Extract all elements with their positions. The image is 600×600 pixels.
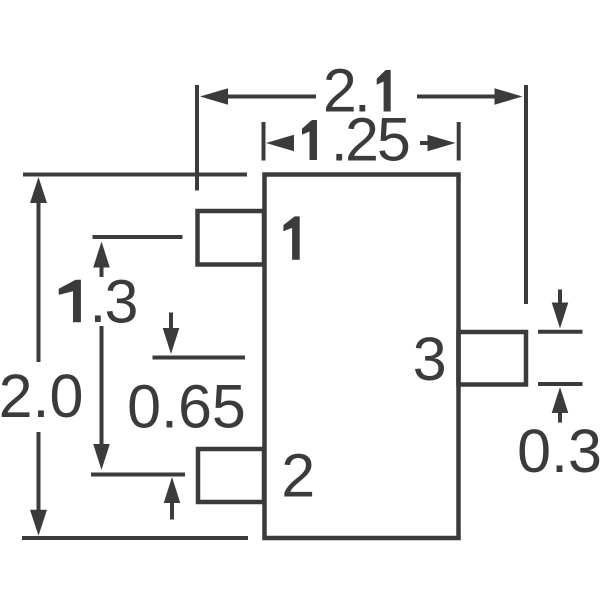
svg-text:2: 2 bbox=[345, 105, 379, 173]
svg-text:0.3: 0.3 bbox=[517, 417, 600, 485]
svg-text:2: 2 bbox=[281, 441, 315, 509]
svg-text:3: 3 bbox=[105, 267, 139, 335]
svg-text:3: 3 bbox=[413, 325, 447, 393]
svg-text:2.0: 2.0 bbox=[0, 362, 83, 430]
svg-text:5: 5 bbox=[377, 105, 411, 173]
svg-text:0.65: 0.65 bbox=[127, 373, 246, 441]
